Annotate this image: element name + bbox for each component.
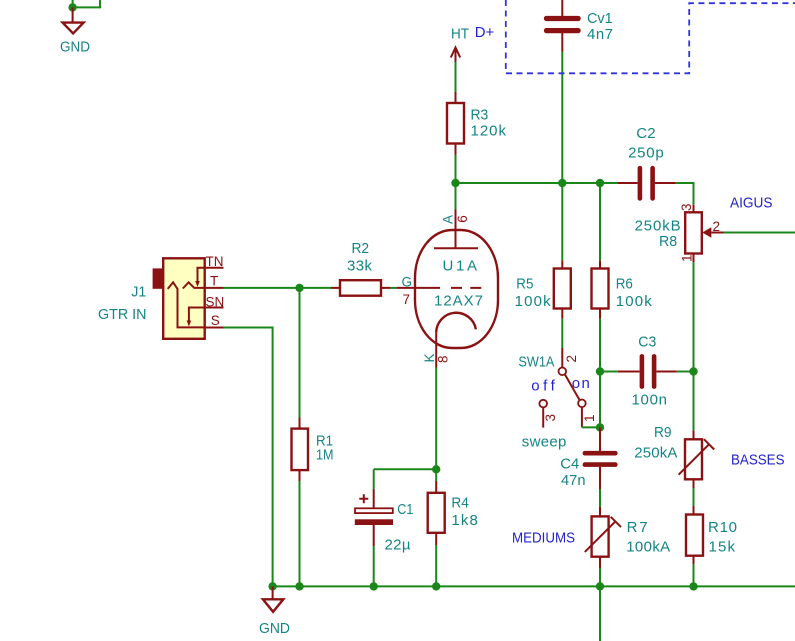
svg-text:GND: GND xyxy=(259,620,290,637)
wire R8 wiper to AIGUS xyxy=(723,232,795,234)
svg-text:3: 3 xyxy=(543,414,558,422)
wire C1 drop xyxy=(373,469,375,489)
svg-text:22µ: 22µ xyxy=(385,537,411,554)
svg-text:8: 8 xyxy=(435,355,450,363)
svg-text:AIGUS: AIGUS xyxy=(730,195,773,212)
resistor R7 100kA potentiometer xyxy=(585,507,670,568)
svg-text:GTR IN: GTR IN xyxy=(98,306,147,323)
wire bus down off-page xyxy=(599,586,601,641)
node junction C3 right xyxy=(689,367,697,375)
svg-text:G: G xyxy=(402,275,413,290)
svg-text:100k: 100k xyxy=(616,293,653,310)
resistor R1 1M xyxy=(292,418,334,482)
wire R1 to bus xyxy=(299,481,301,586)
svg-text:3: 3 xyxy=(679,203,694,211)
switch SW1A xyxy=(518,348,597,450)
svg-text:J1: J1 xyxy=(131,284,146,301)
svg-text:6: 6 xyxy=(455,215,470,223)
wire C3 node to R9 xyxy=(693,372,695,431)
node junction switch/C4 xyxy=(596,423,604,431)
svg-text:33k: 33k xyxy=(347,258,373,275)
svg-text:SW1A: SW1A xyxy=(518,353,554,370)
svg-text:on: on xyxy=(572,375,590,392)
node bus junctions xyxy=(268,582,276,590)
resistor R9 250kA potentiometer xyxy=(634,424,714,488)
svg-text:sweep: sweep xyxy=(522,433,567,450)
wire anode bus horizontal xyxy=(456,182,619,184)
wire T junction down to R1 xyxy=(299,288,301,418)
dashed highlight box xyxy=(506,0,795,73)
svg-text:100k: 100k xyxy=(515,293,552,310)
svg-text:100kA: 100kA xyxy=(626,538,670,555)
resistor R5 100k xyxy=(515,261,571,319)
svg-text:4n7: 4n7 xyxy=(587,26,613,43)
resistor R6 100k xyxy=(592,261,653,319)
capacitor C2 250p xyxy=(618,125,676,201)
capacitor C1 22u polarized xyxy=(355,489,414,554)
ground GND (bottom) xyxy=(259,586,290,636)
svg-text:R6: R6 xyxy=(616,275,633,292)
svg-text:R10: R10 xyxy=(708,519,737,536)
wire C2 to R8 xyxy=(676,183,694,205)
resistor R4 1k8 xyxy=(428,481,478,545)
wire R10 to bus xyxy=(693,564,695,586)
wire cathode down xyxy=(435,368,437,470)
wire bus to anode xyxy=(455,183,457,210)
node junction C3 left xyxy=(596,367,604,375)
svg-text:R8: R8 xyxy=(659,233,677,250)
svg-text:15k: 15k xyxy=(709,538,736,555)
capacitor C3 100n xyxy=(618,334,677,409)
node top-left junction xyxy=(68,3,76,11)
svg-text:47n: 47n xyxy=(561,472,586,489)
node junction R3/anode xyxy=(451,179,459,187)
svg-text:1: 1 xyxy=(582,414,597,422)
svg-text:250p: 250p xyxy=(628,145,664,162)
svg-text:MEDIUMS: MEDIUMS xyxy=(512,529,575,546)
svg-text:R5: R5 xyxy=(516,275,533,292)
node junction Cv1/R5 xyxy=(558,179,566,187)
resistor R10 15k xyxy=(686,506,737,564)
svg-text:S: S xyxy=(211,313,220,328)
wire C4 to R7 xyxy=(599,489,601,507)
wire R9 to R10 xyxy=(693,488,695,506)
wire R7 to bus xyxy=(599,568,601,586)
svg-text:2: 2 xyxy=(713,219,721,234)
svg-text:2: 2 xyxy=(564,355,579,363)
wire C3 left xyxy=(600,371,618,373)
wire SW1A pin1 to junction xyxy=(582,426,600,428)
wire J1 T to R2 xyxy=(224,287,332,289)
svg-text:HT: HT xyxy=(451,25,469,42)
svg-text:R7: R7 xyxy=(627,519,648,536)
svg-text:250kB: 250kB xyxy=(635,218,681,235)
wire R5 to switch xyxy=(561,319,563,348)
wire R6 to C3 node xyxy=(599,319,601,372)
svg-text:1k8: 1k8 xyxy=(451,512,478,529)
wire bus to R5 xyxy=(561,183,563,261)
power symbol HT xyxy=(451,25,469,62)
wire C3 right xyxy=(677,371,694,373)
wire bus to R6 xyxy=(599,183,601,261)
svg-text:C3: C3 xyxy=(638,334,656,351)
svg-text:C2: C2 xyxy=(636,125,655,142)
svg-text:1: 1 xyxy=(680,254,695,262)
svg-text:off: off xyxy=(531,378,555,395)
ground GND (top) xyxy=(60,7,90,55)
node junction cathode/C1/R4 xyxy=(432,465,440,473)
wire C3 node to switch node xyxy=(599,372,601,428)
node junction R6 xyxy=(596,179,604,187)
svg-text:12AX7: 12AX7 xyxy=(434,293,483,310)
wire HT to R3 xyxy=(455,62,457,92)
svg-text:R2: R2 xyxy=(352,240,370,257)
capacitor Cv1 4n7 xyxy=(544,0,613,52)
wire J1 S down xyxy=(224,328,273,587)
wire C1 to bus xyxy=(373,546,375,586)
svg-text:TN: TN xyxy=(206,254,224,269)
resistor R8 250kB potentiometer xyxy=(635,203,724,262)
svg-text:120k: 120k xyxy=(471,123,507,140)
svg-text:250kA: 250kA xyxy=(634,445,677,462)
svg-text:BASSES: BASSES xyxy=(731,451,785,468)
wire junction to R4 xyxy=(435,469,437,481)
wire R4 to bus xyxy=(435,545,437,586)
svg-text:C4: C4 xyxy=(560,455,579,472)
svg-text:7: 7 xyxy=(403,292,411,307)
svg-text:D+: D+ xyxy=(475,24,495,41)
wire R8 to C3 node xyxy=(693,262,695,372)
resistor R3 120k xyxy=(447,92,507,155)
svg-text:100n: 100n xyxy=(632,392,668,409)
wire R3 to bus xyxy=(455,155,457,184)
connector J1 GTR IN xyxy=(98,254,224,339)
wire top-left net xyxy=(73,0,100,7)
capacitor C4 47n xyxy=(560,427,617,489)
svg-text:T: T xyxy=(210,274,218,289)
node junction T/R1 xyxy=(295,284,303,292)
wire R2 to grid xyxy=(391,287,397,289)
svg-text:C1: C1 xyxy=(397,501,413,518)
svg-text:A: A xyxy=(440,215,455,224)
svg-text:R4: R4 xyxy=(451,495,469,512)
svg-text:GND: GND xyxy=(60,39,90,56)
wire bottom ground bus xyxy=(273,585,795,587)
svg-text:Cv1: Cv1 xyxy=(587,10,613,27)
wire Cv1 to bus xyxy=(561,52,563,184)
svg-text:U1A: U1A xyxy=(443,258,478,275)
op-amp U1A triode 12AX7 xyxy=(396,210,498,368)
svg-text:1M: 1M xyxy=(316,447,334,464)
svg-text:SN: SN xyxy=(206,295,225,310)
resistor R2 33k xyxy=(331,240,391,296)
svg-text:R3: R3 xyxy=(471,107,489,124)
wire cathode to C1 xyxy=(374,468,437,470)
svg-text:R9: R9 xyxy=(654,424,672,441)
